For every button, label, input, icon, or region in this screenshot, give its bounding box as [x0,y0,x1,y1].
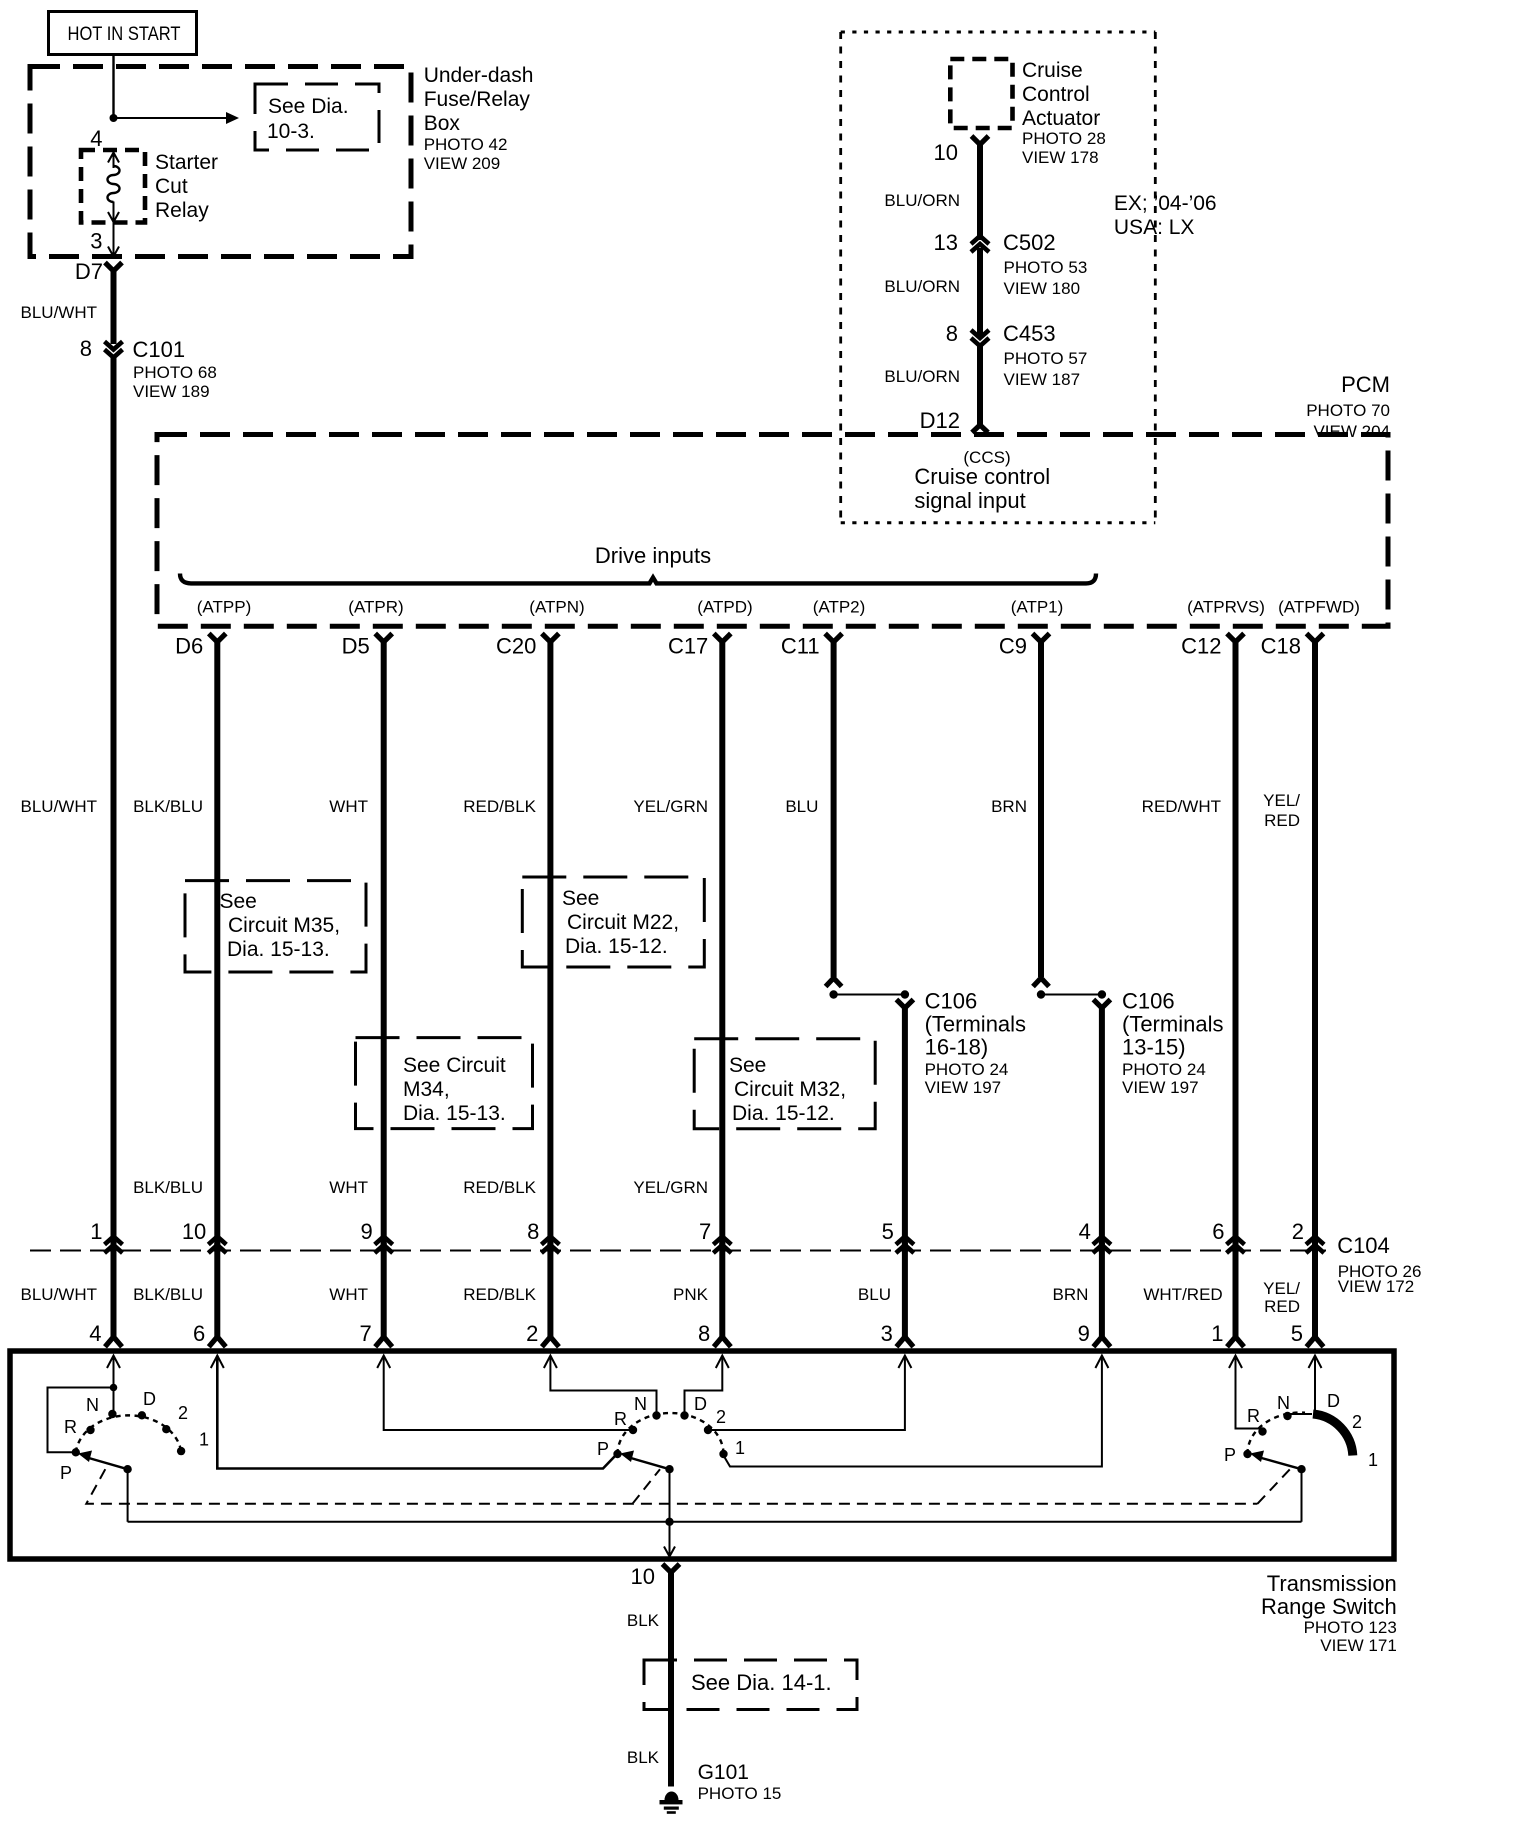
pin C18 PCM [1261,634,1324,659]
svg-text:N: N [1277,1393,1290,1413]
switch section 2 position labels [597,1394,745,1459]
svg-text:PHOTO 15: PHOTO 15 [698,1784,782,1803]
connector C104 pin 9 [360,1219,392,1253]
pin C20 PCM [496,634,559,659]
wire entry arrow pin 9 [1095,1356,1108,1369]
label Under-dash Fuse/Relay Box [424,64,534,173]
svg-text:BLU/ORN: BLU/ORN [884,367,960,386]
cruise control actuator box [950,59,1012,128]
svg-text:C502: C502 [1003,230,1056,255]
connector C453 pin 8 [946,321,989,346]
switch section 3 (right) internal wiring WHT/RED to R [1236,1356,1263,1431]
svg-text:P: P [1224,1445,1236,1465]
wire entry arrow pin 1 [1229,1356,1242,1369]
svg-text:C104: C104 [1337,1233,1390,1258]
svg-text:PHOTO 24: PHOTO 24 [1122,1060,1206,1079]
svg-text:Circuit M32,: Circuit M32, [734,1078,846,1101]
wire BLU/ORN (actuator to C502) [977,142,983,240]
svg-text:EX; ’04-’06: EX; ’04-’06 [1114,192,1217,215]
transmission range switch box [10,1351,1394,1559]
svg-text:See: See [220,890,257,913]
wire entry arrow pin 5 [1309,1356,1322,1369]
pin C9 PCM [999,634,1050,659]
svg-text:YEL/: YEL/ [1263,791,1300,810]
svg-text:Box: Box [424,112,461,135]
svg-text:C11: C11 [781,634,820,659]
svg-text:WHT/RED: WHT/RED [1143,1285,1222,1304]
svg-text:Cruise: Cruise [1022,59,1083,82]
connector C104 pin 1 [90,1219,122,1253]
connector C104 pin 4 [1079,1219,1111,1253]
wire into relay coil (arrow up) [108,153,119,169]
wire RED/BLK (C104 to switch) [547,1243,553,1339]
svg-text:VIEW 209: VIEW 209 [424,154,501,173]
wire wiper common bus [128,1521,1302,1523]
svg-text:8: 8 [698,1321,710,1346]
wire entry arrow pin 2 [544,1356,557,1369]
wire BLU (C11 to junction) [831,640,837,977]
switch section 3 contact arc dashed part [1247,1413,1305,1454]
svg-text:M34,: M34, [403,1078,450,1101]
svg-text:PHOTO 57: PHOTO 57 [1004,349,1088,368]
svg-text:Dia. 15-13.: Dia. 15-13. [227,938,330,961]
svg-text:BLK/BLU: BLK/BLU [133,1285,203,1304]
svg-text:YEL/GRN: YEL/GRN [633,797,708,816]
svg-text:16-18): 16-18) [925,1035,989,1060]
svg-text:BLK: BLK [627,1611,660,1630]
svg-text:C20: C20 [496,634,536,659]
svg-text:13-15): 13-15) [1122,1035,1186,1060]
connector C104 pin 2 [1292,1219,1324,1253]
switch section 2 wiring BRN to 1 [724,1356,1102,1467]
svg-text:Cruise control: Cruise control [914,464,1050,489]
svg-text:PHOTO 53: PHOTO 53 [1004,258,1088,277]
switch section 2 wiring BLK/BLU to P [217,1356,615,1469]
wire relay to fuse box edge (arrow down) [108,222,119,257]
switch section 3 link N to D arc [1290,1413,1312,1415]
svg-text:VIEW 187: VIEW 187 [1004,370,1081,389]
label C104 PHOTO 26 VIEW 172 [1337,1233,1421,1296]
svg-text:YEL/: YEL/ [1263,1279,1300,1298]
svg-text:PNK: PNK [673,1285,709,1304]
svg-text:VIEW 180: VIEW 180 [1004,279,1081,298]
switch pin 9 [1078,1321,1111,1347]
svg-text:8: 8 [80,336,92,361]
switch section 2 (middle) internal wiring WHT to R [384,1356,630,1431]
wire BLK/BLU (D6 to C104) [214,640,220,1247]
pin C11 PCM [781,634,842,659]
reference box See Dia. 14-1. [644,1660,857,1710]
label YEL/RED row1 [1263,791,1300,830]
svg-text:P: P [60,1463,72,1483]
label C502 PHOTO 53 VIEW 180 [1003,230,1087,298]
svg-text:BLU/ORN: BLU/ORN [884,191,960,210]
wire out of relay coil (arrow down) [108,202,119,223]
svg-text:1: 1 [199,1430,209,1450]
svg-text:Dia. 15-12.: Dia. 15-12. [732,1102,835,1125]
label Cruise Control Actuator [1022,59,1106,167]
svg-text:D7: D7 [75,259,103,284]
svg-text:PHOTO 24: PHOTO 24 [925,1060,1009,1079]
svg-text:RED/BLK: RED/BLK [463,797,536,816]
label YEL/RED row3 [1263,1279,1300,1316]
svg-text:3: 3 [90,229,102,254]
svg-text:10-3.: 10-3. [267,120,315,143]
svg-text:Cut: Cut [155,175,188,198]
svg-text:(ATPR): (ATPR) [348,598,403,617]
node wiper bus junction [665,1518,673,1526]
svg-text:BLK/BLU: BLK/BLU [133,1178,203,1197]
svg-text:N: N [634,1394,647,1414]
switch section 2 wiring BLU to 2 [710,1356,905,1431]
switch pin 2 [526,1321,559,1347]
label C106 (Terminals 16-18) PHOTO 24 VIEW 197 [925,989,1026,1098]
svg-text:3: 3 [881,1321,893,1346]
svg-text:(ATPRVS): (ATPRVS) [1187,598,1265,617]
reference box See Circuit M35 [185,881,366,972]
wire arrow to See Dia. 10-3. [114,112,240,124]
svg-text:See Circuit: See Circuit [403,1054,506,1077]
svg-text:VIEW 178: VIEW 178 [1022,148,1099,167]
wire entry arrow pin 4 [107,1356,120,1369]
cruise control dotted region [841,32,1156,523]
label G101 PHOTO 15 [698,1761,782,1803]
svg-text:5: 5 [1291,1321,1303,1346]
wire entry arrow pin 3 [898,1356,911,1369]
svg-text:HOT IN START: HOT IN START [68,24,181,45]
label Starter Cut Relay [155,151,218,222]
svg-text:(ATPFWD): (ATPFWD) [1278,598,1360,617]
switch section 3 wiring YEL/RED to D arc [1314,1356,1316,1415]
svg-text:10: 10 [182,1219,206,1244]
svg-text:Actuator: Actuator [1022,107,1100,130]
svg-text:Under-dash: Under-dash [424,64,534,87]
svg-text:VIEW 204: VIEW 204 [1313,422,1390,441]
label C106 (Terminals 13-15) PHOTO 24 VIEW 197 [1122,989,1223,1098]
svg-text:VIEW 197: VIEW 197 [1122,1078,1199,1097]
svg-text:10: 10 [631,1564,655,1589]
switch section 1 (left) internal wiring [113,1356,115,1415]
svg-text:BLK: BLK [627,1748,660,1767]
connector C104 pin 6 [1212,1219,1244,1253]
svg-text:7: 7 [359,1321,371,1346]
svg-text:VIEW 171: VIEW 171 [1320,1636,1397,1655]
label (CCS) Cruise control signal input [914,448,1050,513]
svg-text:2: 2 [1352,1412,1362,1432]
svg-text:RED: RED [1264,1297,1300,1316]
svg-text:1: 1 [735,1438,745,1458]
switch pin 5 [1291,1321,1324,1347]
svg-text:D: D [1327,1391,1340,1411]
reference box See Circuit M22 [522,877,704,967]
PCM dashed box [157,435,1388,627]
svg-text:WHT: WHT [329,797,368,816]
svg-text:D6: D6 [175,634,203,659]
wire BLU/WHT (C101 to C104) [111,358,117,1248]
svg-text:5: 5 [882,1219,894,1244]
svg-text:signal input: signal input [914,488,1025,513]
svg-text:R: R [64,1417,77,1437]
svg-text:(Terminals: (Terminals [925,1012,1026,1037]
switch pin 1 [1211,1321,1244,1347]
svg-text:See: See [562,887,599,910]
wire BLK/BLU (C104 to switch) [214,1243,220,1339]
relay K starter cut relay coil box [81,150,145,223]
reference box See Circuit M32 [694,1039,875,1129]
svg-text:BLU/WHT: BLU/WHT [21,797,98,816]
connector C106 terminals 13-15 (C9 jumper) [1033,978,1110,1008]
svg-text:PHOTO 68: PHOTO 68 [133,363,217,382]
wire BRN (C104 to switch) [1099,1243,1105,1339]
svg-text:2: 2 [526,1321,538,1346]
wire BRN (C9 to junction) [1038,640,1044,977]
svg-text:Fuse/Relay: Fuse/Relay [424,88,531,111]
relay coil winding [108,166,120,202]
svg-text:D: D [694,1394,707,1414]
svg-text:2: 2 [716,1407,726,1427]
connector C104 pin 10 [182,1219,226,1253]
svg-text:Relay: Relay [155,199,209,222]
wire PNK (C104 to switch) [719,1243,725,1339]
switch pin 7 [359,1321,392,1347]
connector C104 dashed line [30,1250,1326,1252]
pin C12 PCM [1181,634,1244,659]
node junction on starter wire [110,114,118,122]
svg-text:R: R [614,1409,627,1429]
svg-text:(ATP1): (ATP1) [1011,598,1064,617]
svg-text:PCM: PCM [1341,372,1390,397]
wire RED/WHT (C12 to C104) [1233,640,1239,1247]
svg-text:C17: C17 [668,634,708,659]
wire RED/BLK (C20 to C104) [547,640,553,1247]
mechanical linkage dashed line [86,1469,1290,1504]
svg-text:10: 10 [934,140,958,165]
svg-text:1: 1 [1211,1321,1223,1346]
svg-text:BRN: BRN [1052,1285,1088,1304]
wire from HOT IN START into fuse box [112,55,114,119]
svg-text:1: 1 [1368,1450,1378,1470]
switch pin 8 [698,1321,731,1347]
wire to pin 10 (arrow down) [664,1522,675,1557]
reference box See Circuit M34 [356,1038,533,1129]
wire BLU/ORN (C502 to C453) [977,248,983,338]
svg-text:C18: C18 [1261,634,1301,659]
wire WHT (C104 to switch) [381,1243,387,1339]
switch section 3 wiper [1250,1451,1306,1522]
svg-text:BLU: BLU [858,1285,891,1304]
switch section 1 wiper [78,1451,132,1522]
svg-text:6: 6 [193,1321,205,1346]
svg-text:7: 7 [699,1219,711,1244]
wire BLU/WHT main (D7 to C101) [111,269,117,344]
wire entry arrow pin 7 [377,1356,390,1369]
svg-text:YEL/GRN: YEL/GRN [633,1178,708,1197]
switch pin 3 [881,1321,914,1347]
under-dash fuse/relay box [30,67,411,257]
svg-text:Circuit M35,: Circuit M35, [228,914,340,937]
svg-text:PHOTO 70: PHOTO 70 [1306,401,1390,420]
wire WHT/RED (C104 to switch) [1233,1243,1239,1339]
svg-text:BLU/WHT: BLU/WHT [21,303,98,322]
svg-text:9: 9 [1078,1321,1090,1346]
wire YEL/RED (C104 to switch) [1312,1243,1318,1339]
svg-text:VIEW 172: VIEW 172 [1338,1277,1415,1296]
svg-text:(ATPN): (ATPN) [529,598,584,617]
svg-text:BLU/ORN: BLU/ORN [884,277,960,296]
svg-text:4: 4 [89,1321,101,1346]
switch section 2 wiring PNK to D [685,1356,723,1414]
svg-text:VIEW 189: VIEW 189 [133,382,210,401]
svg-text:Control: Control [1022,83,1090,106]
svg-text:C12: C12 [1181,634,1221,659]
switch pin 6 [193,1321,226,1347]
svg-text:WHT: WHT [329,1178,368,1197]
svg-text:6: 6 [1212,1219,1224,1244]
pin D5 PCM [342,634,393,659]
svg-text:PHOTO 123: PHOTO 123 [1304,1618,1397,1637]
svg-text:Starter: Starter [155,151,218,174]
pin D6 PCM [175,634,226,659]
svg-text:RED/BLK: RED/BLK [463,1285,536,1304]
svg-text:D: D [143,1389,156,1409]
switch section 3 position labels [1224,1391,1378,1470]
connector C104 pin 7 [699,1219,731,1253]
svg-text:4: 4 [1079,1219,1091,1244]
wire entry arrow pin 6 [211,1356,224,1369]
svg-text:D12: D12 [920,408,960,433]
wire BLU (C106 to C104) [902,1005,908,1247]
svg-text:USA: LX: USA: LX [1114,216,1195,239]
switch section 2 wiring RED/BLK to N [550,1356,656,1414]
wire YEL/RED (C18 to C104) [1312,640,1318,1247]
brace drive inputs [180,574,1096,584]
svg-text:Dia. 15-13.: Dia. 15-13. [403,1102,506,1125]
svg-text:C101: C101 [133,337,186,362]
svg-text:N: N [86,1395,99,1415]
label EX; 04-06 USA: LX [1114,192,1217,239]
label C101 PHOTO 68 VIEW 189 [133,337,217,401]
svg-text:(ATPD): (ATPD) [697,598,752,617]
svg-text:2: 2 [178,1403,188,1423]
switch section 2 wiper [620,1451,674,1523]
svg-text:PHOTO 28: PHOTO 28 [1022,129,1106,148]
pin C17 PCM [668,634,731,659]
wire BLU/WHT (C104 to switch) [111,1243,117,1339]
svg-text:R: R [1247,1406,1260,1426]
connector C101 pin 8 [80,336,123,361]
wire WHT (D5 to C104) [381,640,387,1247]
svg-text:BLU/WHT: BLU/WHT [21,1285,98,1304]
wire BLK (switch to See Dia 14-1) [668,1570,674,1787]
svg-text:(Terminals: (Terminals [1122,1012,1223,1037]
connector C106 terminals 16-18 (C11 jumper) [826,978,914,1008]
svg-text:4: 4 [90,126,102,151]
label Transmission Range Switch PHOTO 123 VIEW 171 [1261,1571,1397,1655]
svg-text:(ATP2): (ATP2) [813,598,866,617]
svg-text:RED/BLK: RED/BLK [463,1178,536,1197]
svg-text:RED: RED [1264,811,1300,830]
wire BRN (C106 to C104) [1099,1005,1105,1247]
svg-text:1: 1 [90,1219,102,1244]
svg-text:PHOTO 42: PHOTO 42 [424,135,508,154]
switch section 1 contact arc [76,1415,181,1452]
switch pin 4 [89,1321,122,1347]
label C453 PHOTO 57 VIEW 187 [1003,321,1087,389]
wire entry arrow pin 8 [716,1356,729,1369]
svg-text:Dia. 15-12.: Dia. 15-12. [565,935,668,958]
reference box See Dia. 10-3. [255,84,379,150]
connector C104 pin 8 [527,1219,559,1253]
svg-text:See Dia. 14-1.: See Dia. 14-1. [691,1670,832,1695]
switch section 1 position labels [60,1389,209,1483]
svg-text:VIEW 197: VIEW 197 [925,1078,1002,1097]
svg-text:BRN: BRN [991,797,1027,816]
svg-text:2: 2 [1292,1219,1304,1244]
svg-text:(ATPP): (ATPP) [197,598,251,617]
svg-text:8: 8 [527,1219,539,1244]
svg-text:Transmission: Transmission [1267,1571,1397,1596]
svg-text:8: 8 [946,321,958,346]
svg-text:WHT: WHT [329,1285,368,1304]
svg-text:P: P [597,1439,609,1459]
label PCM PHOTO 70 VIEW 204 [1306,372,1390,441]
switch section 3 contact arc solid thick part (D-2-1) [1313,1414,1353,1456]
ground G101 [660,1792,683,1814]
svg-text:Drive inputs: Drive inputs [595,543,711,568]
connector C104 pin 5 [882,1219,914,1253]
svg-text:RED/WHT: RED/WHT [1142,797,1221,816]
svg-text:9: 9 [360,1219,372,1244]
svg-text:See Dia.: See Dia. [268,95,349,118]
switch section 2 contact arc [618,1413,724,1454]
svg-text:BLK/BLU: BLK/BLU [133,797,203,816]
wire YEL/GRN (C17 to C104) [719,640,725,1247]
svg-text:C106: C106 [925,989,978,1014]
svg-text:Range Switch: Range Switch [1261,1594,1397,1619]
svg-text:BLU: BLU [785,797,818,816]
wire BLU (C104 to switch) [902,1243,908,1339]
node HOT IN START [49,12,197,55]
connector C502 pin 13 [934,230,989,255]
wire BLU/ORN (C453 to PCM D12) [977,346,983,425]
svg-text:C106: C106 [1122,989,1175,1014]
svg-text:D5: D5 [342,634,370,659]
svg-text:Circuit M22,: Circuit M22, [567,911,679,934]
svg-text:C9: C9 [999,634,1027,659]
svg-text:13: 13 [934,230,958,255]
svg-text:See: See [729,1054,766,1077]
svg-text:G101: G101 [698,1761,749,1784]
svg-text:C453: C453 [1003,321,1056,346]
